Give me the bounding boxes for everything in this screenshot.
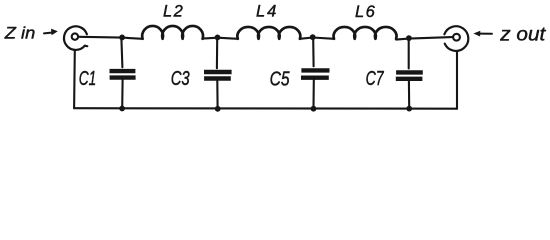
capacitor C7 lower lead [408, 81, 410, 108]
capacitor C5 lower lead [312, 80, 314, 109]
wire bottom rail [74, 107, 457, 110]
connector J1 inner pin circle [72, 33, 78, 39]
svg-text:Z in: Z in [4, 24, 36, 43]
capacitor C7 plates [396, 72, 423, 78]
inductor L4 [237, 27, 300, 39]
junction dot top node 3 [310, 34, 316, 40]
svg-text:L6: L6 [355, 3, 376, 21]
wire top rail: J1 pin to L2 [79, 37, 142, 39]
junction dot bottom node 2 [215, 106, 221, 112]
svg-text:C1: C1 [79, 68, 97, 90]
capacitor C3 lower lead [216, 81, 218, 109]
connector J1 (Z in), outer shield arc [64, 26, 87, 50]
wire from J2 shield down to bottom rail [456, 51, 458, 108]
wire top rail: L4 to L6 [300, 38, 334, 39]
svg-text:C5: C5 [270, 69, 291, 91]
svg-text:L2: L2 [163, 3, 184, 21]
svg-text:z out: z out [499, 25, 546, 46]
wire from J1 shield down to bottom rail [73, 51, 76, 109]
svg-text:C3: C3 [171, 68, 190, 90]
capacitor C3 upper lead [216, 39, 218, 69]
capacitor C1 lower lead [121, 80, 124, 109]
inductor L2 [142, 26, 203, 39]
wire top rail: L6 to J2 pin [396, 37, 452, 40]
capacitor C5 upper lead [312, 38, 314, 66]
svg-text:C7: C7 [366, 68, 385, 90]
junction dot top node 1 [119, 35, 125, 41]
connector J2 inner pin circle [453, 34, 460, 41]
junction dot bottom node 1 [119, 106, 125, 112]
capacitor C1 upper lead [121, 38, 122, 67]
arrow pointing right at Z in connector [44, 29, 58, 36]
svg-text:L4: L4 [256, 3, 278, 21]
connector J2 (z out), outer shield arc [444, 26, 468, 51]
junction dot top node 2 [215, 35, 221, 41]
capacitor C5 plates [301, 70, 330, 77]
wire top rail: L2 to L4 [203, 38, 238, 39]
capacitor C3 plates [204, 72, 232, 79]
junction dot top node 4 [406, 35, 412, 41]
inductor L6 [334, 27, 397, 39]
capacitor C7 upper lead [408, 39, 410, 69]
junction dot bottom node 4 [406, 106, 412, 112]
arrow pointing left at z out connector [473, 31, 492, 37]
junction dot bottom node 3 [311, 106, 317, 112]
capacitor C1 plates [110, 71, 136, 78]
